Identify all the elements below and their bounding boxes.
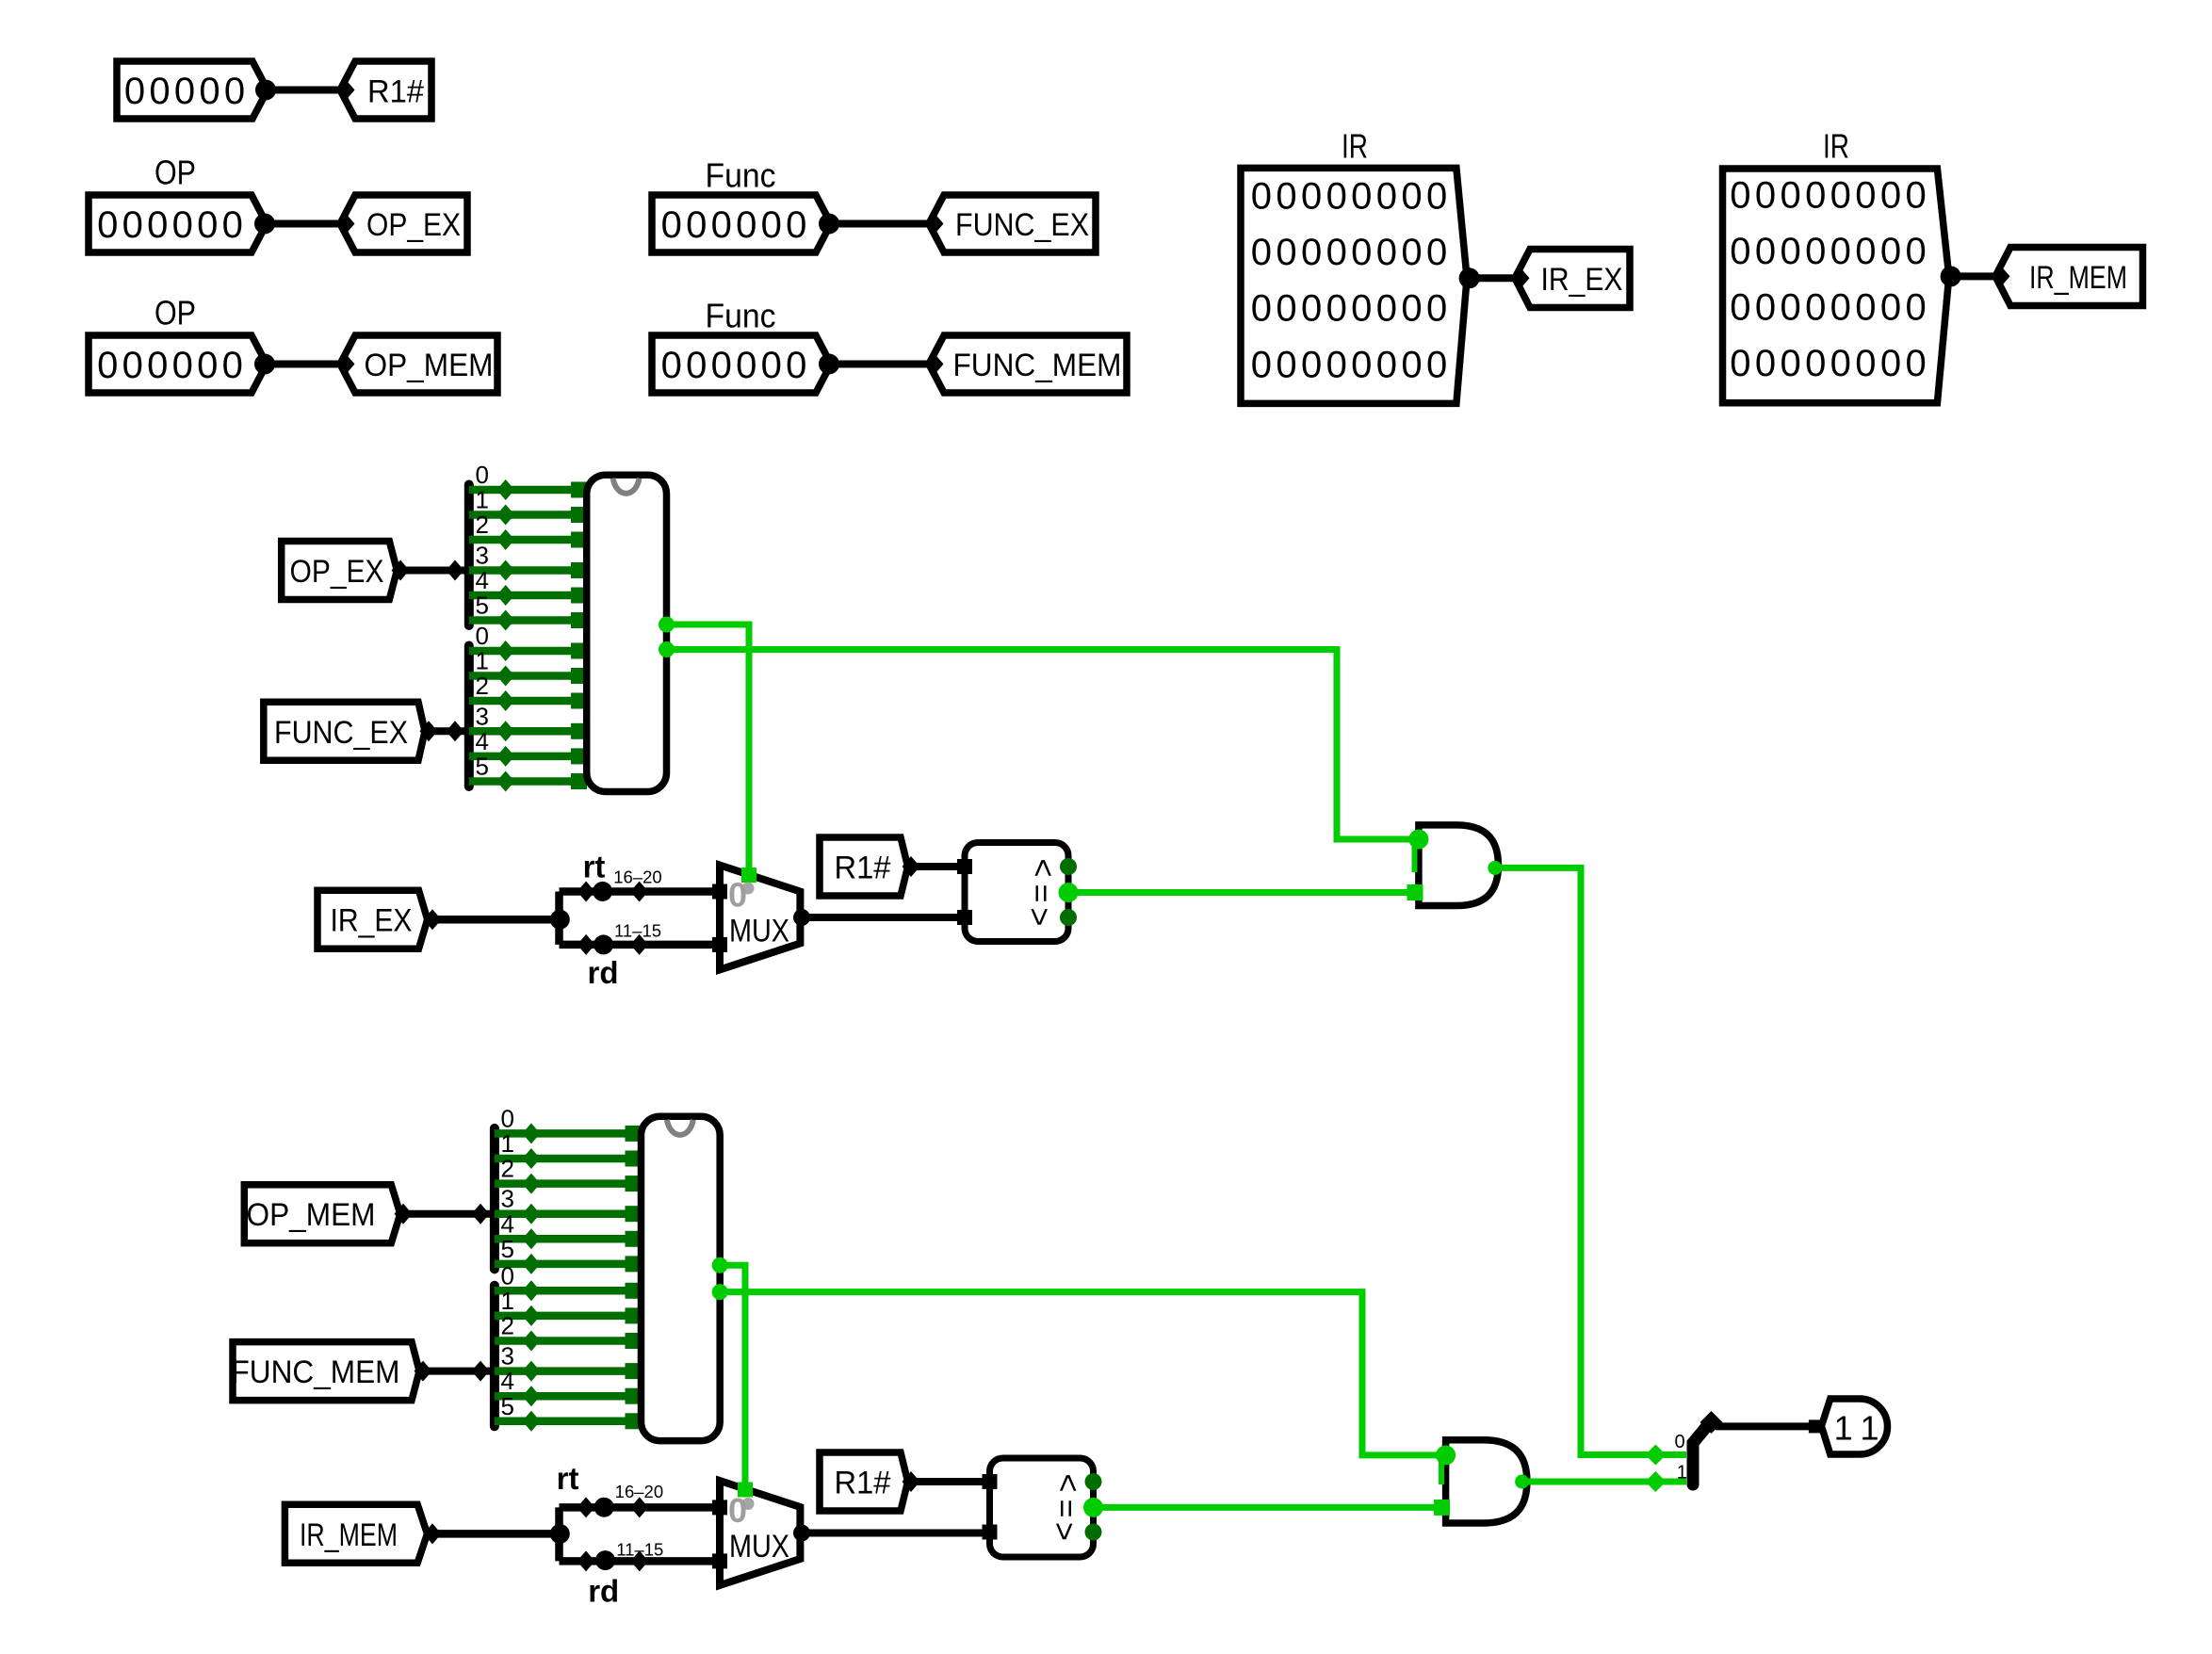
label Func (EX) xyxy=(706,156,776,195)
svg-text:1: 1 xyxy=(501,1129,514,1158)
svg-text:Func: Func xyxy=(706,156,776,195)
wire rt branch (bits 16-20) xyxy=(560,882,721,902)
svg-text:0: 0 xyxy=(1301,175,1322,217)
svg-text:0: 0 xyxy=(97,204,118,246)
wire U5 output to selector input 1 xyxy=(1522,1471,1686,1492)
svg-text:IR_MEM: IR_MEM xyxy=(2029,260,2127,296)
tunnel IR_MEM (source) xyxy=(285,1504,427,1563)
svg-text:0: 0 xyxy=(1401,288,1422,330)
svg-text:2: 2 xyxy=(501,1312,514,1340)
svg-text:R1#: R1# xyxy=(835,851,892,886)
svg-text:4: 4 xyxy=(476,727,489,755)
svg-text:3: 3 xyxy=(501,1185,514,1213)
svg-text:0: 0 xyxy=(122,345,143,386)
multiplexer MUX1 xyxy=(712,866,810,970)
svg-text:IR_MEM: IR_MEM xyxy=(300,1517,398,1553)
gate U1 (12-input NOR, EX decode) xyxy=(587,475,675,791)
svg-text:IR: IR xyxy=(1342,127,1368,166)
svg-text:0: 0 xyxy=(1326,175,1347,217)
label IR (MEM) xyxy=(1823,127,1849,166)
selector switch SW1 xyxy=(1693,1411,1723,1484)
svg-text:IR_EX: IR_EX xyxy=(1541,262,1623,298)
svg-text:0: 0 xyxy=(1376,232,1397,273)
tunnel R1# (source, EX) xyxy=(820,837,908,896)
input pin Func_MEM (6-bit constant 000000) xyxy=(652,335,831,393)
input pin OP_EX (6-bit constant 000000) xyxy=(89,195,267,252)
svg-text:0: 0 xyxy=(686,204,707,246)
svg-text:rt: rt xyxy=(557,1461,579,1496)
output pin 11 (result probe) xyxy=(1809,1399,1888,1454)
svg-text:0: 0 xyxy=(199,71,220,112)
svg-text:IR: IR xyxy=(1823,127,1849,166)
tunnel FUNC_EX (sink) xyxy=(926,195,1097,252)
wire U6 equal output to AND U5 xyxy=(1094,1504,1442,1511)
svg-text:0: 0 xyxy=(786,204,806,246)
wire IR_EX to splitter junction xyxy=(424,909,561,930)
wire IR pin to IR_MEM tunnel xyxy=(1941,266,1997,286)
svg-text:0: 0 xyxy=(1805,175,1826,217)
svg-text:0: 0 xyxy=(786,345,806,386)
svg-text:2: 2 xyxy=(476,672,489,700)
wire rd branch MEM (bits 11-15) xyxy=(560,1550,721,1571)
svg-text:0: 0 xyxy=(1880,175,1901,217)
svg-text:0: 0 xyxy=(1855,231,1876,272)
svg-text:1: 1 xyxy=(1860,1409,1879,1448)
svg-text:0: 0 xyxy=(1830,343,1851,384)
svg-text:0: 0 xyxy=(501,1104,514,1132)
input pin R1 (5-bit constant 00000) xyxy=(117,61,268,119)
label rd (MEM) xyxy=(588,1574,619,1609)
AND gate U5 (MEM hazard) xyxy=(1434,1440,1529,1523)
svg-text:0: 0 xyxy=(476,461,489,489)
label rt xyxy=(583,850,606,884)
svg-text:0: 0 xyxy=(1326,232,1347,273)
node junction J2 xyxy=(550,1507,570,1561)
svg-text:5: 5 xyxy=(501,1235,514,1263)
wire MUX2 output to comparator U6 xyxy=(802,1530,990,1537)
svg-text:0: 0 xyxy=(224,71,245,112)
svg-text:0: 0 xyxy=(1426,288,1447,330)
svg-text:rd: rd xyxy=(588,955,619,990)
input pin OP_MEM (6-bit constant 000000) xyxy=(89,335,267,393)
label Func (MEM) xyxy=(706,297,776,335)
svg-text:0: 0 xyxy=(222,345,243,386)
svg-text:0: 0 xyxy=(1805,343,1826,384)
wire R1 pin to R1# tunnel xyxy=(255,80,341,101)
wire R1# to comparator U6 xyxy=(903,1471,990,1492)
svg-text:<: < xyxy=(1022,908,1058,927)
svg-text:11–15: 11–15 xyxy=(616,1540,663,1560)
svg-text:2: 2 xyxy=(476,511,489,539)
AND gate U3 (EX hazard) xyxy=(1407,825,1503,906)
svg-text:0: 0 xyxy=(122,204,143,246)
svg-text:1: 1 xyxy=(1834,1409,1853,1448)
svg-text:0: 0 xyxy=(1905,175,1926,217)
svg-text:0: 0 xyxy=(661,345,682,386)
svg-text:0: 0 xyxy=(1805,287,1826,329)
svg-text:0: 0 xyxy=(1276,175,1296,217)
svg-text:0: 0 xyxy=(1426,344,1447,385)
svg-text:0: 0 xyxy=(728,1491,747,1530)
svg-text:16–20: 16–20 xyxy=(613,868,661,887)
svg-text:0: 0 xyxy=(1880,287,1901,329)
input pin IR_EX (32-bit constant) xyxy=(1241,168,1467,403)
svg-text:0: 0 xyxy=(174,71,195,112)
svg-text:1: 1 xyxy=(476,486,489,514)
tunnel OP_MEM (source) xyxy=(244,1185,400,1243)
svg-text:3: 3 xyxy=(476,542,489,570)
svg-text:0: 0 xyxy=(711,345,732,386)
label 0 (selector input) xyxy=(1674,1432,1684,1452)
svg-text:0: 0 xyxy=(1301,288,1322,330)
svg-text:0: 0 xyxy=(686,345,707,386)
svg-text:0: 0 xyxy=(222,204,243,246)
svg-text:0: 0 xyxy=(1401,232,1422,273)
svg-text:OP: OP xyxy=(155,294,196,332)
svg-text:0: 0 xyxy=(1830,231,1851,272)
svg-text:0: 0 xyxy=(761,204,782,246)
label 11-15 (MEM) xyxy=(616,1540,663,1560)
svg-text:Func: Func xyxy=(706,297,776,335)
svg-text:0: 0 xyxy=(1905,231,1926,272)
svg-text:FUNC_EX: FUNC_EX xyxy=(955,207,1089,243)
wire U4 output to AND U5 input (long) xyxy=(720,1292,1443,1455)
svg-text:0: 0 xyxy=(1830,287,1851,329)
svg-text:4: 4 xyxy=(476,566,489,594)
svg-text:0: 0 xyxy=(1426,232,1447,273)
tunnel IR_EX (source) xyxy=(317,890,428,949)
wire IR pin to IR_EX tunnel xyxy=(1459,268,1517,288)
wire IR_MEM to splitter junction xyxy=(424,1523,561,1544)
svg-text:0: 0 xyxy=(711,204,732,246)
svg-text:0: 0 xyxy=(1780,287,1800,329)
svg-text:0: 0 xyxy=(1276,288,1296,330)
svg-text:0: 0 xyxy=(1830,175,1851,217)
svg-text:0: 0 xyxy=(1880,231,1901,272)
svg-text:16–20: 16–20 xyxy=(615,1482,663,1501)
svg-text:1: 1 xyxy=(1677,1462,1687,1483)
svg-text:rd: rd xyxy=(588,1574,619,1609)
svg-text:0: 0 xyxy=(1780,343,1800,384)
label 1 (selector input) xyxy=(1677,1462,1687,1483)
svg-text:0: 0 xyxy=(1251,344,1272,385)
splitter S1 (OP_EX bits 0-5) xyxy=(469,461,587,631)
svg-text:0: 0 xyxy=(1351,232,1372,273)
svg-text:11–15: 11–15 xyxy=(614,921,661,941)
svg-text:2: 2 xyxy=(501,1155,514,1183)
label rt (MEM) xyxy=(557,1461,579,1496)
svg-text:0: 0 xyxy=(1426,175,1447,217)
svg-text:OP_MEM: OP_MEM xyxy=(247,1197,376,1233)
svg-text:0: 0 xyxy=(1326,288,1347,330)
svg-text:R1#: R1# xyxy=(367,74,425,110)
svg-text:5: 5 xyxy=(476,592,489,620)
tunnel R1# (source, MEM) xyxy=(820,1452,908,1511)
wire U4 output to MUX2 select xyxy=(720,1265,745,1487)
tunnel OP_EX (source) xyxy=(282,542,398,600)
svg-text:0: 0 xyxy=(1755,231,1776,272)
svg-text:=: = xyxy=(1024,884,1060,903)
svg-text:>: > xyxy=(1050,1474,1086,1493)
svg-text:3: 3 xyxy=(476,702,489,730)
svg-text:0: 0 xyxy=(736,345,756,386)
svg-text:MUX: MUX xyxy=(729,914,789,949)
svg-text:0: 0 xyxy=(1755,343,1776,384)
svg-text:FUNC_MEM: FUNC_MEM xyxy=(232,1354,400,1390)
svg-text:3: 3 xyxy=(501,1342,514,1370)
multiplexer MUX2 xyxy=(712,1481,810,1585)
svg-text:0: 0 xyxy=(147,204,168,246)
svg-text:0: 0 xyxy=(97,345,118,386)
svg-text:IR_EX: IR_EX xyxy=(331,903,413,939)
svg-text:5: 5 xyxy=(501,1392,514,1420)
tunnel OP_EX (sink) xyxy=(337,195,468,252)
svg-text:0: 0 xyxy=(1730,175,1750,217)
svg-text:4: 4 xyxy=(501,1367,514,1395)
svg-text:<: < xyxy=(1047,1522,1082,1541)
svg-text:0: 0 xyxy=(1351,175,1372,217)
svg-text:0: 0 xyxy=(1780,231,1800,272)
tunnel OP_MEM (sink) xyxy=(337,335,498,393)
label IR (EX) xyxy=(1342,127,1368,166)
splitter S2 (FUNC_EX bits 0-5) xyxy=(469,622,587,792)
svg-text:0: 0 xyxy=(1376,288,1397,330)
svg-text:0: 0 xyxy=(172,204,193,246)
svg-text:0: 0 xyxy=(1855,343,1876,384)
svg-text:0: 0 xyxy=(1351,288,1372,330)
label 16-20 (MEM) xyxy=(615,1482,663,1501)
svg-text:0: 0 xyxy=(728,876,747,915)
svg-text:0: 0 xyxy=(197,345,218,386)
svg-text:0: 0 xyxy=(1401,175,1422,217)
label 16-20 xyxy=(613,868,661,887)
svg-text:1: 1 xyxy=(476,647,489,675)
label OP (MEM) xyxy=(155,294,196,332)
wire OP_EX tunnel to splitter S1 xyxy=(392,560,465,581)
svg-text:0: 0 xyxy=(1251,175,1272,217)
svg-text:=: = xyxy=(1049,1499,1084,1517)
wire U2 equal output to AND U3 xyxy=(1068,889,1415,896)
wire OP pin to OP_EX tunnel xyxy=(254,214,341,235)
svg-text:0: 0 xyxy=(1855,287,1876,329)
svg-text:0: 0 xyxy=(1301,344,1322,385)
svg-text:0: 0 xyxy=(1401,344,1422,385)
svg-text:0: 0 xyxy=(1730,343,1750,384)
svg-text:0: 0 xyxy=(1755,287,1776,329)
svg-text:FUNC_EX: FUNC_EX xyxy=(274,715,408,751)
svg-text:0: 0 xyxy=(1351,344,1372,385)
svg-text:0: 0 xyxy=(1276,344,1296,385)
tunnel R1# (sink) xyxy=(337,61,432,119)
wire Func pin to FUNC_EX tunnel xyxy=(819,214,931,235)
wire U3 output to selector input 0 xyxy=(1495,868,1686,1465)
wire Func pin to FUNC_MEM tunnel xyxy=(819,354,931,375)
tunnel FUNC_MEM (source) xyxy=(232,1342,420,1401)
svg-text:0: 0 xyxy=(1855,175,1876,217)
svg-text:OP_EX: OP_EX xyxy=(366,207,461,243)
svg-text:FUNC_MEM: FUNC_MEM xyxy=(953,348,1122,383)
tunnel FUNC_EX (source) xyxy=(264,702,425,760)
wire R1# to comparator U2 xyxy=(903,856,966,877)
svg-text:rt: rt xyxy=(583,850,606,884)
svg-text:OP: OP xyxy=(155,154,196,192)
svg-text:0: 0 xyxy=(147,345,168,386)
splitter S3 (OP_MEM bits 0-5) xyxy=(495,1104,642,1274)
wire OP_MEM tunnel to splitter S3 xyxy=(395,1204,491,1224)
svg-text:OP_EX: OP_EX xyxy=(290,554,384,590)
tunnel IR_EX (sink) xyxy=(1512,250,1631,308)
svg-text:0: 0 xyxy=(1251,232,1272,273)
svg-text:1: 1 xyxy=(501,1287,514,1315)
svg-text:0: 0 xyxy=(1326,344,1347,385)
svg-text:0: 0 xyxy=(1880,343,1901,384)
svg-text:0: 0 xyxy=(1780,175,1800,217)
wire U1 output to MUX1 select xyxy=(667,624,750,873)
svg-text:0: 0 xyxy=(149,71,170,112)
svg-text:4: 4 xyxy=(501,1209,514,1238)
wire U1 output to AND U3 input (long) xyxy=(667,650,1418,840)
svg-text:0: 0 xyxy=(172,345,193,386)
wire OP pin to OP_MEM tunnel xyxy=(254,354,341,375)
svg-text:0: 0 xyxy=(1301,232,1322,273)
wire SW1 to output pin xyxy=(1716,1422,1810,1430)
wire FUNC_MEM tunnel to splitter S4 xyxy=(415,1361,491,1382)
wire rd branch (bits 11-15) xyxy=(560,934,721,955)
splitter S4 (FUNC_MEM bits 0-5) xyxy=(495,1261,642,1432)
label rd xyxy=(588,955,619,990)
label OP (EX) xyxy=(155,154,196,192)
label 11-15 xyxy=(614,921,661,941)
wire rt branch MEM (bits 16-20) xyxy=(560,1497,721,1517)
svg-text:5: 5 xyxy=(476,753,489,781)
tunnel IR_MEM (sink) xyxy=(1992,248,2143,306)
svg-text:0: 0 xyxy=(1755,175,1776,217)
svg-text:0: 0 xyxy=(1805,231,1826,272)
svg-text:0: 0 xyxy=(661,204,682,246)
svg-text:0: 0 xyxy=(1376,175,1397,217)
comparator U6 (MEM) xyxy=(983,1458,1104,1557)
svg-text:>: > xyxy=(1026,859,1062,878)
input pin Func_EX (6-bit constant 000000) xyxy=(652,195,831,252)
svg-text:0: 0 xyxy=(1251,288,1272,330)
svg-text:OP_MEM: OP_MEM xyxy=(365,348,494,383)
svg-text:R1#: R1# xyxy=(835,1466,892,1501)
svg-text:0: 0 xyxy=(1730,231,1750,272)
svg-text:0: 0 xyxy=(476,622,489,650)
svg-text:0: 0 xyxy=(1905,343,1926,384)
svg-text:0: 0 xyxy=(501,1261,514,1289)
svg-text:0: 0 xyxy=(1730,287,1750,329)
svg-text:0: 0 xyxy=(1376,344,1397,385)
svg-text:0: 0 xyxy=(736,204,756,246)
svg-text:0: 0 xyxy=(1674,1432,1684,1452)
svg-text:0: 0 xyxy=(1276,232,1296,273)
svg-text:0: 0 xyxy=(197,204,218,246)
svg-text:0: 0 xyxy=(1905,287,1926,329)
svg-text:0: 0 xyxy=(761,345,782,386)
svg-text:MUX: MUX xyxy=(729,1529,789,1565)
svg-text:0: 0 xyxy=(124,71,145,112)
comparator U2 (EX) xyxy=(957,843,1079,942)
wire MUX1 output to comparator U2 xyxy=(802,914,965,921)
input pin IR_MEM (32-bit constant) xyxy=(1723,169,1949,403)
gate U4 (12-input NOR, MEM decode) xyxy=(642,1116,728,1440)
wire FUNC_EX tunnel to splitter S2 xyxy=(420,721,465,741)
tunnel FUNC_MEM (sink) xyxy=(926,335,1128,393)
node junction J1 xyxy=(550,892,570,945)
